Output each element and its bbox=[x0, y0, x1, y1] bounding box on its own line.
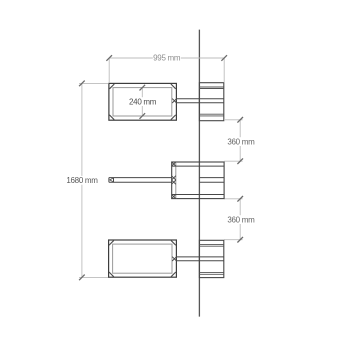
dim 1680mm extension bottom bbox=[79, 276, 108, 278]
top bracket on pole bbox=[199, 83, 223, 121]
svg-text:995 mm: 995 mm bbox=[153, 54, 181, 63]
pole (vertical post) bbox=[198, 30, 200, 317]
dim 1680mm label bbox=[67, 176, 98, 185]
top shelf box outer bbox=[109, 83, 176, 120]
middle shelf arm bbox=[109, 178, 172, 183]
dim 995mm extension left bbox=[108, 58, 110, 83]
middle bracket bottom rail bbox=[172, 194, 224, 196]
dim 1680mm tick bottom bbox=[79, 275, 85, 281]
dim 360mm (lower) line bbox=[239, 199, 241, 240]
top bracket rails bbox=[199, 87, 223, 116]
bottom shelf box inner bbox=[113, 244, 172, 273]
dim 995mm tick right bbox=[221, 55, 227, 61]
dim 360mm (upper) tick bottom bbox=[237, 158, 243, 164]
middle box X marks bbox=[172, 162, 176, 166]
middle bracket inner left wall bbox=[175, 162, 177, 199]
bottom box corner tick BL bbox=[109, 272, 114, 277]
middle bracket top rail bbox=[172, 165, 224, 167]
dim 360mm (lower) tick bottom bbox=[237, 237, 243, 243]
dim 240mm tick bottom bbox=[140, 113, 146, 119]
dim 240mm label bbox=[129, 97, 158, 106]
top box corner tick TL bbox=[110, 84, 115, 89]
dim 360mm (lower) label bbox=[227, 215, 255, 224]
dim 995mm tick left bbox=[106, 55, 112, 61]
top shelf box inner bbox=[113, 88, 172, 116]
dim 360mm (lower) extension bottom bbox=[224, 239, 243, 241]
dim 1680mm line bbox=[81, 83, 83, 277]
top box corner tick TR bbox=[171, 84, 176, 89]
top box corner tick BL bbox=[109, 115, 114, 120]
middle arm end chevron bbox=[110, 178, 113, 182]
dim 360mm (upper) extension bottom bbox=[224, 160, 242, 162]
dim 360mm (upper) label bbox=[227, 137, 255, 146]
top shelf arm bbox=[176, 99, 223, 103]
bottom shelf arm bbox=[176, 257, 223, 261]
dim 240mm tick top bbox=[140, 85, 146, 91]
bottom shelf box outer bbox=[109, 240, 177, 277]
svg-text:360 mm: 360 mm bbox=[227, 215, 255, 224]
bottom bracket on pole bbox=[199, 240, 223, 277]
dim 360mm (lower) tick top bbox=[237, 196, 243, 202]
bottom bracket rails bbox=[199, 245, 223, 275]
dim 360mm (upper) extension top bbox=[224, 119, 243, 121]
dim 360mm (lower) extension top bbox=[224, 198, 243, 200]
middle bracket box outer bbox=[172, 162, 224, 199]
svg-text:1680 mm: 1680 mm bbox=[66, 176, 98, 185]
svg-text:360 mm: 360 mm bbox=[227, 137, 255, 146]
dim 360mm (upper) line bbox=[239, 120, 241, 161]
middle bracket right rails bbox=[199, 178, 224, 183]
bottom box corner tick TR bbox=[171, 240, 176, 245]
top box corner tick BR bbox=[171, 115, 176, 120]
dim 1680mm tick top bbox=[79, 81, 85, 87]
bottom box corner tick TL bbox=[109, 240, 114, 245]
bottom box corner tick BR bbox=[171, 272, 176, 277]
bottom arm joint X bbox=[172, 257, 176, 261]
svg-text:240 mm: 240 mm bbox=[129, 97, 157, 106]
dim 995mm extension right bbox=[223, 58, 225, 83]
dim 1680mm extension top bbox=[79, 82, 109, 84]
dim 995mm line bbox=[109, 57, 224, 59]
dim 240mm line bbox=[141, 88, 143, 116]
dim 360mm (upper) tick top bbox=[237, 117, 243, 123]
top arm joint X bbox=[172, 99, 176, 103]
dim 995mm label bbox=[153, 53, 181, 62]
